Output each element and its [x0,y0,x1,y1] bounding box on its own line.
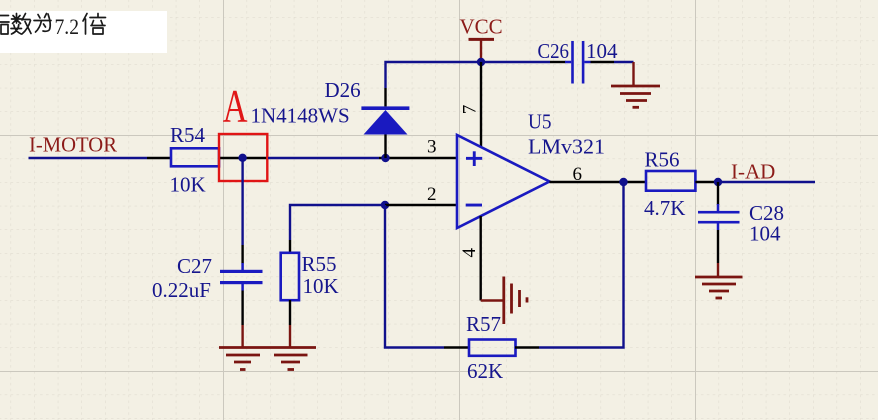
svg-text:R55: R55 [302,252,337,276]
junction VCC node [477,58,485,66]
op-amp U5 [457,135,550,228]
svg-text:0.22uF: 0.22uF [152,278,211,302]
partial char 倍 clipped at left [0,16,9,35]
red marker box A [219,134,267,181]
pin lead D26 cathode [384,88,386,106]
capacitor C28 [698,211,740,224]
annotation text box (Chinese note) [0,11,167,53]
svg-text:I-AD: I-AD [731,160,775,184]
diode D26 [361,106,409,134]
wire C27 branch [241,158,243,245]
wire D26 to VCC rail [386,62,551,88]
ground stub C27 [241,325,243,347]
wire C26 to ground [614,61,634,63]
resistor R57 [469,340,516,356]
opamp plus sign [466,151,482,166]
pin lead C27.2 [241,284,244,291]
ground symbol right of C26 [611,86,660,107]
resistor R55 [281,253,299,300]
capacitor C27 [220,270,263,284]
pin lead R57.2 [515,346,539,348]
wire R55 to node2 [290,205,385,240]
junction output node [619,178,627,186]
pin lead R56.2 [695,181,718,183]
svg-text:1N4148WS: 1N4148WS [251,103,350,127]
pin lead opamp pin2 [385,204,457,206]
pin lead R54.1 [147,157,172,159]
pin lead R57.1 [444,346,469,348]
svg-text:C27: C27 [177,254,212,278]
pin lead opamp pin6 output [550,181,647,183]
pin lead C26.2 [584,61,590,64]
wire node3 horizontal [268,157,379,159]
ground symbol under C27 [219,348,267,370]
svg-text:104: 104 [749,222,781,246]
svg-text:62K: 62K [467,359,503,383]
svg-text:LMv321: LMv321 [528,135,605,159]
ground symbol under C28 [695,277,743,298]
ground symbol at pin4 (rotated right) [504,277,527,325]
pin lead opamp pin4 [480,216,482,301]
pin lead C26.1 [550,61,566,63]
svg-text:R56: R56 [645,148,680,172]
char 为 [34,14,51,33]
resistor R54 [171,148,219,166]
ground stub C28 [717,263,719,276]
pin lead opamp pin7 [480,62,482,147]
svg-text:D26: D26 [325,78,361,102]
char 数 [11,14,22,35]
wire I-MOTOR to R54 [29,157,148,159]
diode D26 pin lead anode [384,134,386,158]
svg-text:R57: R57 [466,312,501,336]
ground stub pin4 (rotated) [481,299,503,301]
wire feedback down and across [385,205,444,348]
svg-text:104: 104 [586,39,618,63]
junction node3 at D26 [381,154,389,162]
power port VCC [469,39,495,62]
capacitor C26 [571,41,584,84]
svg-text:VCC: VCC [460,15,503,39]
junction node3 at R54/C27 [238,154,246,162]
ground symbol under R55 [267,348,316,370]
svg-text:10K: 10K [170,173,206,197]
wire feedback to output node [539,182,624,348]
resistor R56 [646,171,695,191]
pin lead C28.2 [717,223,720,230]
pin lead R55 top [289,240,291,253]
pin lead R54.2 [219,157,268,159]
char 倍 [83,14,106,35]
svg-text:3: 3 [427,137,437,158]
pin lead R55 bottom [289,300,291,325]
ground stub C26 [632,62,634,86]
junction I-AD node [714,178,722,186]
svg-text:7: 7 [460,105,481,115]
wire to I-AD [718,181,815,183]
opamp minus sign [466,204,482,207]
pin lead opamp pin3 [379,157,457,159]
svg-text:R54: R54 [170,123,206,147]
svg-text:7.2: 7.2 [55,14,80,39]
svg-text:C26: C26 [538,39,570,63]
pin lead C27.1 [241,245,243,264]
svg-text:U5: U5 [528,110,552,134]
ground stub R55 [289,325,291,347]
svg-text:10K: 10K [303,274,339,298]
pin lead C28.1 [717,182,719,205]
svg-text:4.7K: 4.7K [644,196,685,220]
svg-text:A: A [223,79,248,132]
svg-text:I-MOTOR: I-MOTOR [29,133,117,157]
svg-text:4: 4 [459,248,480,258]
svg-text:2: 2 [427,184,437,205]
junction node2 [381,201,389,209]
